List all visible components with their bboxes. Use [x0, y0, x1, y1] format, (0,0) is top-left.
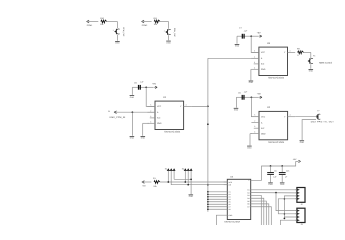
svg-text:3: 3	[150, 115, 151, 118]
svg-text:3: 3	[254, 61, 255, 64]
svg-text:GND: GND	[268, 183, 273, 186]
svg-text:N.C: N.C	[261, 63, 265, 66]
svg-text:VCC: VCC	[261, 51, 266, 54]
svg-text:+5V: +5V	[152, 83, 156, 86]
svg-text:PPM_CAP: PPM_CAP	[173, 28, 176, 38]
svg-text:PPM2: PPM2	[142, 24, 148, 27]
svg-text:DMX PPM TTL OUT: DMX PPM TTL OUT	[311, 121, 335, 124]
svg-text:GND: GND	[130, 137, 135, 140]
svg-text:GND: GND	[166, 41, 171, 44]
svg-text:DMX_PPM_IN: DMX_PPM_IN	[110, 116, 126, 119]
svg-text:SN74LVC1G04: SN74LVC1G04	[164, 131, 181, 134]
svg-text:PPM1: PPM1	[87, 24, 93, 27]
svg-text:+5V: +5V	[257, 93, 261, 96]
svg-text:GND: GND	[247, 146, 252, 149]
svg-text:GND: GND	[309, 70, 314, 73]
svg-text:2: 2	[254, 55, 255, 58]
svg-text:5: 5	[254, 114, 255, 117]
svg-text:GND: GND	[115, 42, 120, 45]
svg-text:GND: GND	[235, 45, 240, 48]
svg-text:3: 3	[150, 120, 151, 123]
svg-text:10k: 10k	[154, 23, 157, 26]
svg-text:10k: 10k	[153, 185, 156, 188]
svg-text:SN74LVC245A: SN74LVC245A	[224, 220, 240, 223]
svg-text:GND: GND	[189, 195, 194, 198]
svg-text:VCC: VCC	[261, 116, 266, 119]
svg-text:4: 4	[290, 114, 291, 117]
svg-text:3: 3	[254, 131, 255, 134]
svg-text:MMS Control: MMS Control	[319, 61, 332, 64]
svg-text:GND: GND	[141, 137, 146, 140]
svg-text:GND: GND	[300, 141, 305, 144]
svg-text:GND: GND	[261, 132, 266, 135]
svg-text:C6: C6	[274, 169, 276, 172]
svg-text:+5V: +5V	[257, 32, 261, 35]
svg-text:1: 1	[164, 30, 165, 33]
svg-text:P6: P6	[108, 110, 110, 113]
svg-text:4: 4	[186, 103, 187, 106]
svg-text:5: 5	[254, 49, 255, 52]
svg-text:N.C: N.C	[261, 127, 265, 130]
svg-text:4: 4	[289, 49, 290, 52]
svg-text:3: 3	[254, 66, 255, 69]
svg-text:SN74LVC1G04: SN74LVC1G04	[268, 77, 285, 80]
svg-text:C15: C15	[286, 169, 289, 172]
svg-text:P7: P7	[317, 110, 319, 113]
svg-text:GND: GND	[130, 96, 135, 99]
svg-text:GND: GND	[234, 109, 239, 112]
svg-text:1: 1	[113, 29, 114, 32]
svg-text:5: 5	[150, 103, 151, 106]
svg-text:N.C: N.C	[157, 117, 161, 120]
svg-text:VCC: VCC	[157, 105, 162, 108]
svg-text:SN74LVC1G04: SN74LVC1G04	[268, 141, 285, 144]
svg-text:GND: GND	[280, 183, 285, 186]
svg-text:GND: GND	[249, 81, 254, 84]
svg-text:GND: GND	[157, 122, 162, 125]
svg-text:P8: P8	[313, 54, 315, 57]
svg-text:10k: 10k	[100, 23, 103, 26]
svg-text:+5V: +5V	[293, 158, 297, 161]
svg-text:PPM_CAP: PPM_CAP	[122, 27, 125, 37]
svg-text:2: 2	[254, 120, 255, 123]
svg-text:GND: GND	[261, 68, 266, 71]
svg-text:3: 3	[254, 125, 255, 128]
